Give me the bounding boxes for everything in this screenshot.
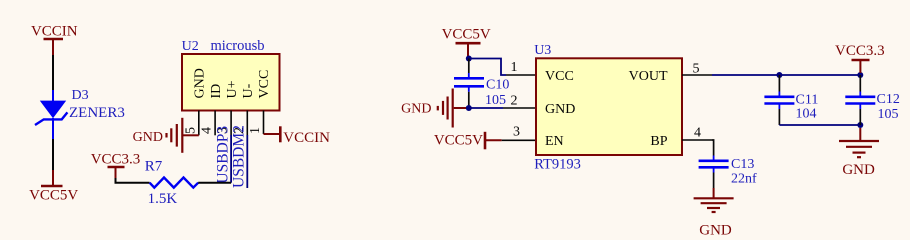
svg-text:GND: GND	[842, 162, 875, 178]
svg-text:GND: GND	[193, 68, 208, 98]
power port VCC3.3 (left)	[91, 152, 141, 178]
svg-text:GND: GND	[133, 130, 163, 145]
regulator U3 RT9193 body	[534, 43, 682, 172]
U3 pin names	[545, 69, 668, 149]
svg-text:1.5K: 1.5K	[148, 191, 178, 207]
svg-text:VOUT: VOUT	[629, 69, 668, 84]
svg-text:VCC: VCC	[257, 70, 272, 99]
wire R7 to pin3 net	[198, 182, 231, 184]
wire VCC5V node to U3 pin1	[469, 59, 506, 76]
diode D3 ZENER3	[35, 88, 125, 125]
svg-text:C13: C13	[731, 157, 754, 172]
svg-text:VCCIN: VCCIN	[283, 130, 330, 146]
svg-text:U-: U-	[241, 83, 256, 98]
pin 4 BP lead	[682, 139, 712, 141]
U2 pin 3 U+	[216, 80, 240, 135]
svg-text:VCC3.3: VCC3.3	[835, 43, 885, 59]
node C12 bottom	[857, 122, 863, 128]
node C12 top	[857, 72, 863, 78]
pin 1 lead	[506, 74, 536, 76]
wire U2 pin 3 (USBDP3 net)	[230, 135, 232, 183]
power port VCC5V (bottom left)	[29, 170, 78, 204]
capacitor C13	[699, 157, 757, 188]
U3 pin numbers	[511, 60, 702, 141]
capacitor C12	[845, 75, 900, 125]
svg-text:EN: EN	[545, 134, 564, 149]
svg-text:VCC5V: VCC5V	[434, 133, 483, 149]
svg-text:RT9193: RT9193	[534, 156, 581, 172]
node C11 top	[776, 72, 782, 78]
power port VCCIN (top left)	[31, 24, 78, 56]
capacitor C10	[454, 59, 509, 109]
svg-text:R7: R7	[145, 159, 163, 175]
pin 3 lead	[502, 139, 536, 141]
node C10 bottom junction	[466, 105, 472, 111]
capacitor C11	[764, 75, 818, 125]
svg-text:5: 5	[183, 127, 198, 134]
svg-text:BP: BP	[650, 134, 667, 149]
wire D3 to VCC5V	[52, 118, 54, 139]
svg-text:GND: GND	[545, 102, 575, 117]
svg-text:U+: U+	[225, 80, 240, 98]
svg-text:C10: C10	[486, 78, 509, 93]
ground symbol left of C10	[401, 89, 466, 128]
U2 pin 2 U-	[232, 83, 256, 135]
U2 pin 1 VCC	[248, 70, 272, 134]
svg-text:VCC5V: VCC5V	[29, 188, 78, 204]
svg-text:microusb: microusb	[211, 38, 265, 54]
U2 pin 4 ID	[200, 84, 224, 136]
svg-text:105: 105	[878, 107, 899, 122]
power port VCC5V at U3 EN pin	[434, 132, 502, 150]
svg-text:USBDP3: USBDP3	[214, 126, 231, 184]
svg-text:ZENER3: ZENER3	[69, 105, 125, 121]
svg-text:VCC5V: VCC5V	[442, 26, 491, 42]
svg-text:1: 1	[511, 60, 518, 75]
wire bottom rail C11-C12	[779, 124, 860, 126]
svg-text:GND: GND	[699, 223, 732, 239]
power port VCCIN (right of U2 pin1)	[264, 126, 331, 146]
svg-text:D3: D3	[72, 88, 89, 103]
resistor R7 1.5K	[145, 159, 198, 208]
connector U2 microusb body	[182, 38, 280, 110]
svg-text:2: 2	[511, 94, 518, 109]
svg-text:U2: U2	[182, 39, 199, 54]
svg-text:C12: C12	[877, 92, 900, 107]
svg-text:104: 104	[796, 107, 817, 122]
svg-text:22nf: 22nf	[731, 172, 757, 187]
ground symbol under C13	[694, 188, 734, 239]
ground symbol at U2 pin 5	[133, 118, 199, 153]
U2 pin 5 GND	[183, 68, 207, 135]
svg-text:VCCIN: VCCIN	[31, 24, 78, 40]
svg-text:GND: GND	[401, 102, 431, 117]
svg-text:VCC3.3: VCC3.3	[91, 152, 141, 168]
svg-text:VCC: VCC	[545, 69, 574, 84]
svg-text:C11: C11	[796, 93, 819, 108]
wire U2 pin 2 (USBDM2 net)	[246, 135, 248, 188]
pin 2 lead	[503, 107, 536, 109]
svg-text:105: 105	[485, 93, 506, 108]
wire VCC3.3 to R7	[116, 178, 150, 183]
ground symbol under C12	[839, 128, 879, 178]
svg-text:1: 1	[248, 127, 263, 134]
power port VCC3.3 (top right)	[835, 43, 885, 73]
svg-text:U3: U3	[534, 43, 551, 58]
node VCC5V junction	[466, 56, 472, 62]
wire BP to C13	[712, 140, 714, 156]
pin 5 VOUT lead	[682, 74, 712, 76]
svg-text:ID: ID	[209, 84, 224, 99]
wire junction to U3 pin2	[469, 107, 503, 109]
wire VCCIN to D3	[52, 55, 54, 90]
wire VOUT rail	[712, 74, 860, 76]
svg-text:4: 4	[200, 127, 215, 134]
svg-text:USBDM2: USBDM2	[230, 125, 247, 188]
svg-text:4: 4	[694, 126, 701, 141]
power port VCC5V (top of right circuit)	[442, 26, 491, 56]
svg-text:3: 3	[513, 125, 520, 140]
